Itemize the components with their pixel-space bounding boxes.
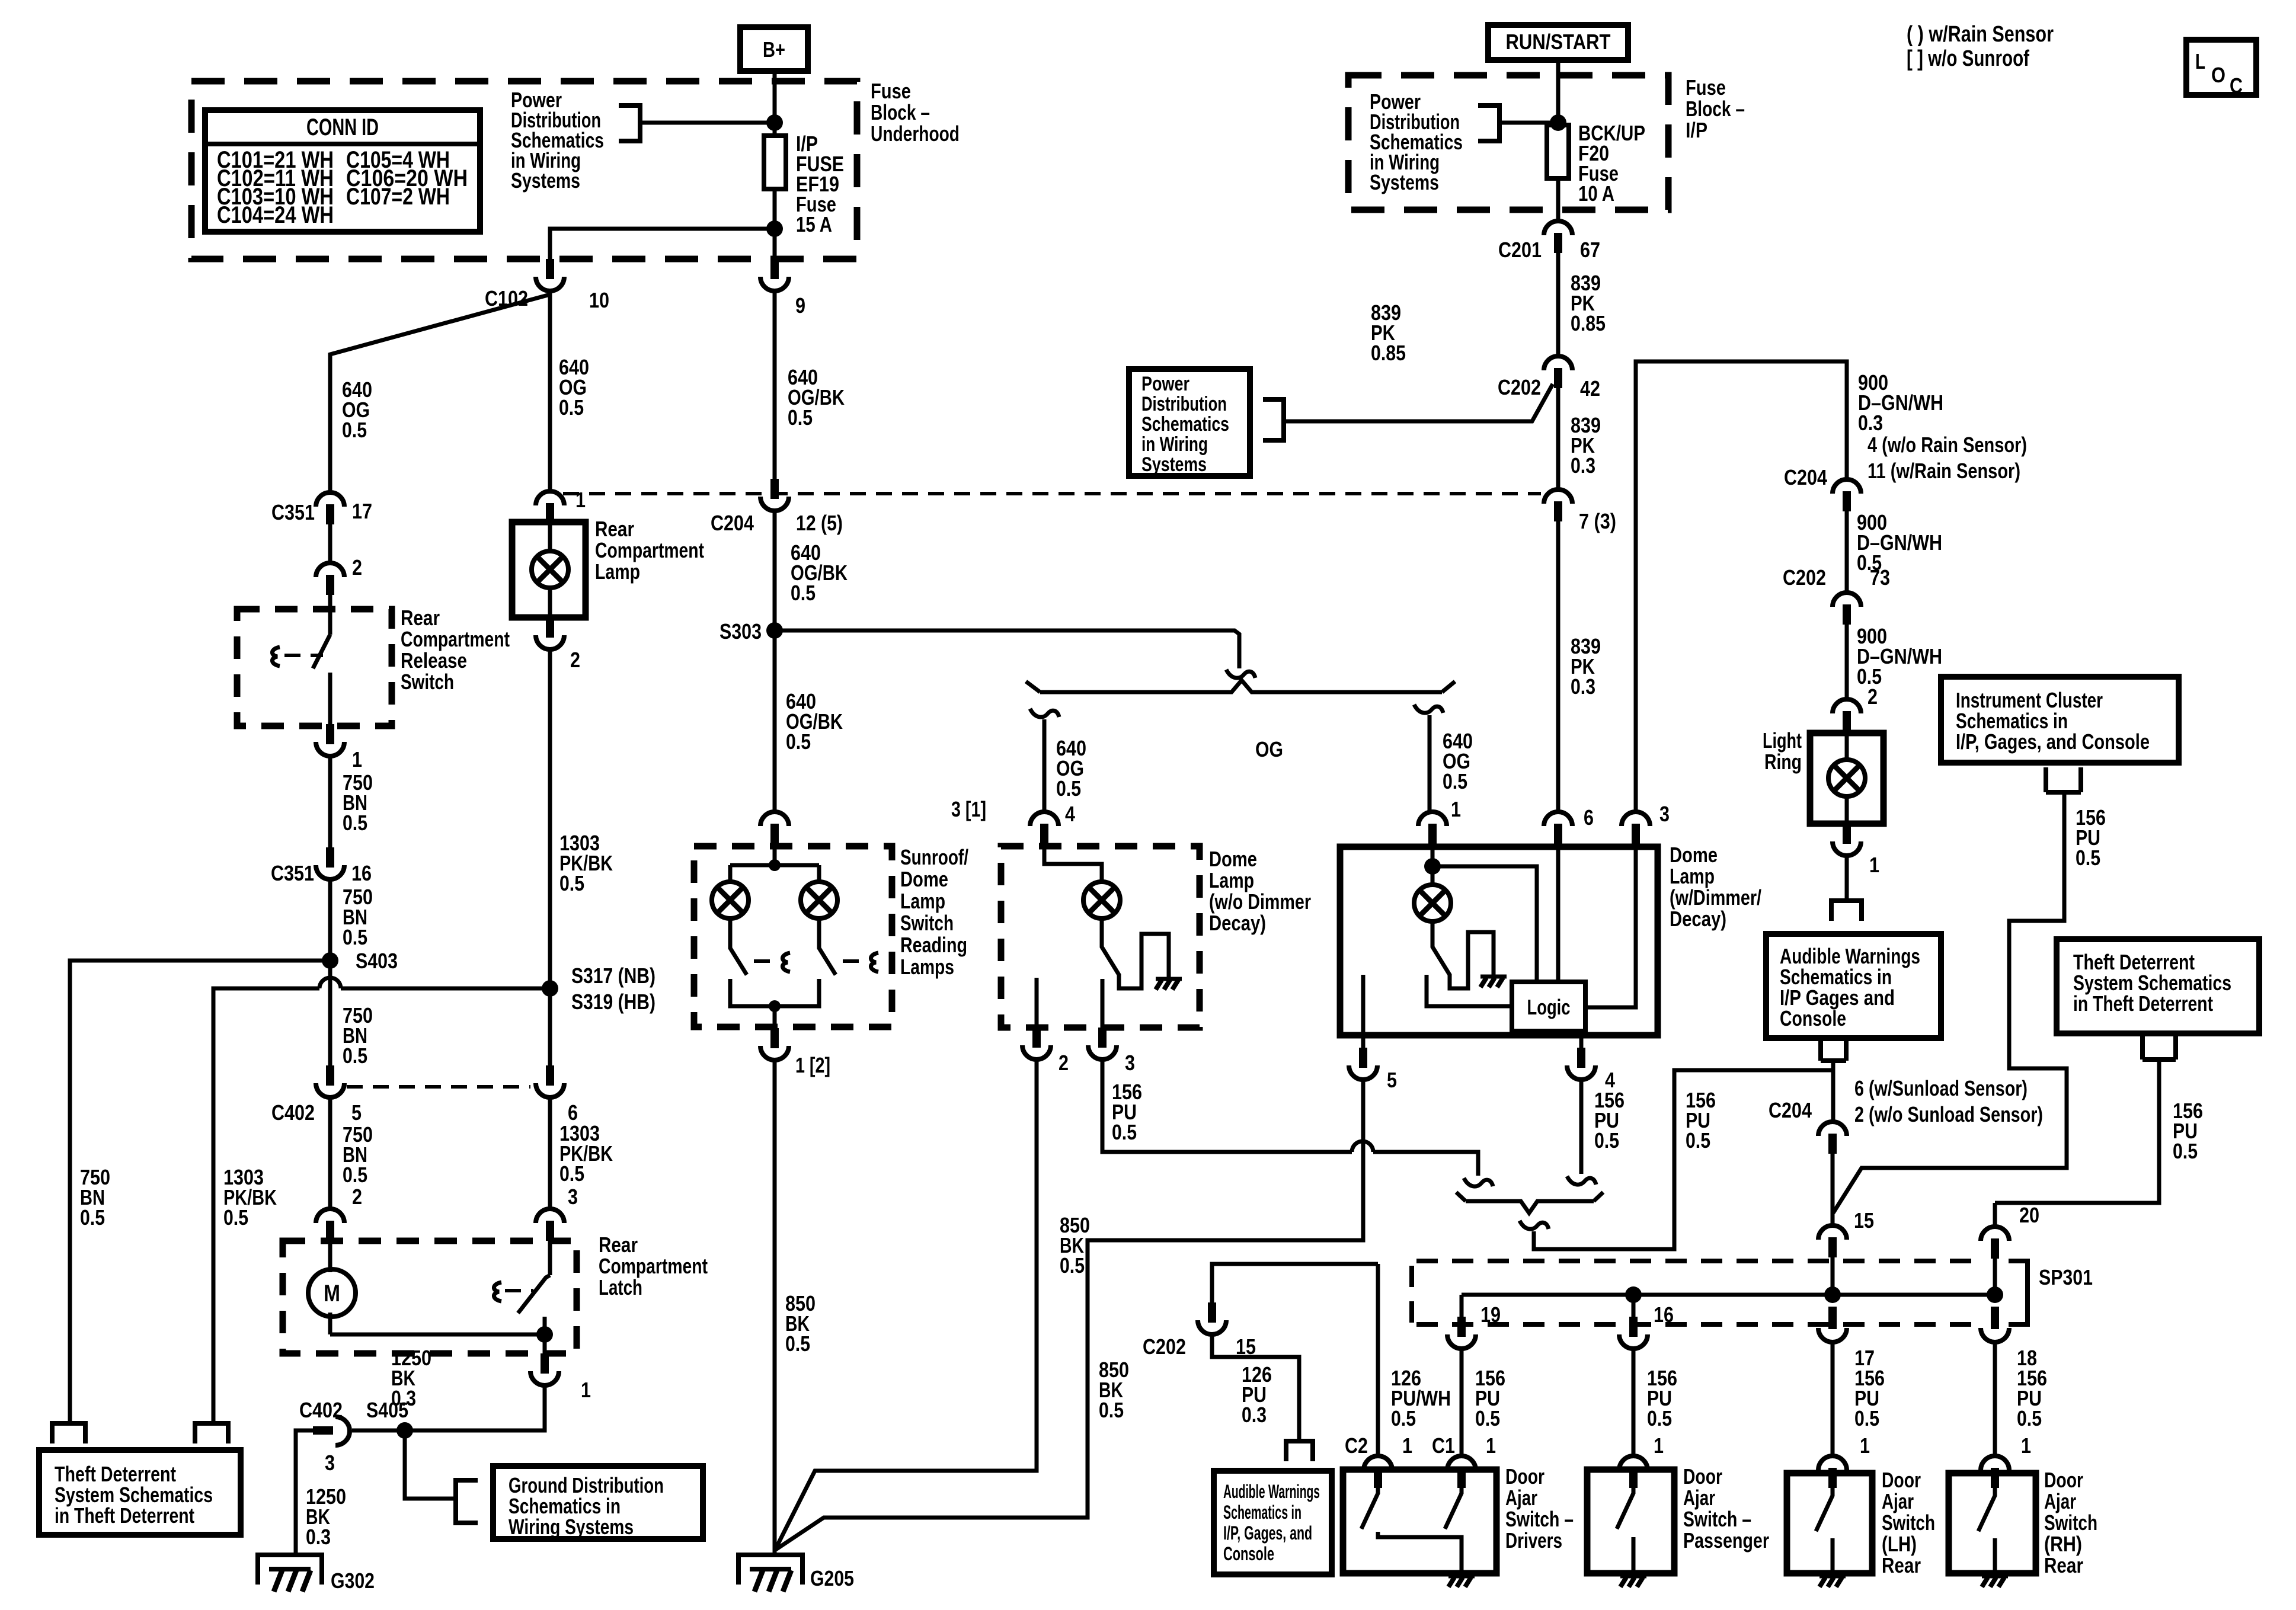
svg-text:Ajar: Ajar	[1505, 1486, 1537, 1510]
svg-text:2: 2	[352, 555, 362, 580]
svg-text:Lamp: Lamp	[1670, 864, 1715, 888]
svg-text:0.5: 0.5	[343, 811, 367, 835]
svg-text:C204: C204	[711, 511, 754, 535]
svg-text:Underhood: Underhood	[871, 121, 960, 146]
svg-text:Switch: Switch	[1882, 1510, 1935, 1535]
svg-text:C204: C204	[1784, 465, 1827, 489]
svg-text:C351: C351	[271, 500, 315, 524]
svg-text:Lamp: Lamp	[595, 559, 640, 584]
svg-text:1: 1	[581, 1378, 591, 1402]
svg-text:0.3: 0.3	[1242, 1403, 1267, 1427]
svg-text:0.5: 0.5	[343, 925, 367, 949]
svg-text:0.5: 0.5	[559, 1161, 584, 1186]
svg-text:( ) w/Rain Sensor: ( ) w/Rain Sensor	[1907, 22, 2054, 47]
svg-text:0.5: 0.5	[1475, 1406, 1500, 1430]
svg-text:0.5: 0.5	[223, 1205, 248, 1230]
svg-text:4 (w/o Rain Sensor): 4 (w/o Rain Sensor)	[1868, 433, 2027, 457]
svg-text:0.5: 0.5	[785, 1331, 810, 1356]
svg-text:0.5: 0.5	[786, 729, 811, 754]
svg-text:Compartment: Compartment	[401, 627, 510, 651]
svg-text:Release: Release	[401, 648, 467, 673]
svg-text:1: 1	[1860, 1433, 1870, 1458]
svg-text:M: M	[324, 1281, 340, 1307]
svg-text:0.5: 0.5	[559, 871, 584, 895]
svg-text:C204: C204	[1769, 1098, 1812, 1122]
svg-text:0.5: 0.5	[80, 1205, 105, 1230]
svg-text:16: 16	[1654, 1302, 1674, 1327]
svg-text:0.5: 0.5	[1056, 776, 1081, 801]
svg-text:Decay): Decay)	[1209, 911, 1266, 935]
svg-text:OG: OG	[1255, 737, 1283, 761]
svg-text:Rear: Rear	[599, 1233, 638, 1257]
svg-text:3 [1]: 3 [1]	[951, 797, 986, 821]
svg-text:C402: C402	[271, 1100, 315, 1125]
svg-text:Audible Warnings: Audible Warnings	[1223, 1481, 1320, 1502]
svg-text:Switch: Switch	[401, 670, 454, 694]
svg-text:1: 1	[1869, 853, 1879, 877]
svg-text:Ajar: Ajar	[1683, 1486, 1715, 1510]
svg-text:0.5: 0.5	[1443, 769, 1467, 793]
svg-text:G302: G302	[331, 1569, 375, 1593]
svg-text:(LH): (LH)	[1882, 1532, 1917, 1556]
svg-text:Light: Light	[1763, 728, 1802, 753]
svg-text:C107=2 WH: C107=2 WH	[346, 184, 450, 210]
svg-text:6: 6	[1584, 805, 1594, 830]
svg-text:Dome: Dome	[900, 867, 948, 891]
svg-text:12 (5): 12 (5)	[796, 511, 843, 535]
svg-text:2: 2	[352, 1185, 362, 1209]
svg-text:C351: C351	[271, 861, 314, 885]
svg-text:1: 1	[352, 747, 362, 772]
svg-text:C: C	[2230, 73, 2243, 98]
svg-text:CONN ID: CONN ID	[306, 114, 379, 140]
svg-text:9: 9	[795, 293, 805, 318]
svg-text:0.5: 0.5	[343, 1044, 367, 1068]
svg-text:Door: Door	[1882, 1468, 1921, 1492]
svg-text:3: 3	[568, 1185, 578, 1209]
svg-text:Switch –: Switch –	[1505, 1507, 1574, 1531]
svg-text:67: 67	[1580, 238, 1600, 262]
svg-text:Door: Door	[2044, 1468, 2083, 1492]
svg-text:19: 19	[1480, 1302, 1501, 1327]
svg-text:in Wiring: in Wiring	[1141, 433, 1208, 456]
svg-text:Logic: Logic	[1527, 995, 1571, 1019]
svg-text:Reading: Reading	[900, 933, 967, 957]
svg-text:G205: G205	[810, 1566, 854, 1590]
svg-text:Ajar: Ajar	[1882, 1489, 1914, 1513]
svg-text:Rear: Rear	[595, 517, 634, 541]
svg-text:C104=24 WH: C104=24 WH	[217, 202, 334, 228]
svg-text:0.5: 0.5	[1854, 1406, 1879, 1430]
svg-text:Systems: Systems	[1141, 453, 1207, 476]
svg-text:Sunroof/: Sunroof/	[900, 845, 968, 869]
svg-text:0.85: 0.85	[1571, 311, 1606, 335]
svg-text:11 (w/Rain Sensor): 11 (w/Rain Sensor)	[1868, 459, 2020, 483]
svg-text:Schematics in: Schematics in	[1223, 1502, 1302, 1523]
svg-text:O: O	[2211, 63, 2225, 87]
svg-text:Switch: Switch	[2044, 1510, 2097, 1535]
svg-text:in Theft Deterrent: in Theft Deterrent	[2073, 991, 2213, 1016]
svg-text:10 A: 10 A	[1578, 181, 1614, 206]
svg-text:Systems: Systems	[1370, 170, 1439, 194]
svg-text:Wiring Systems: Wiring Systems	[509, 1515, 634, 1539]
svg-text:0.5: 0.5	[2173, 1139, 2198, 1163]
svg-text:Latch: Latch	[599, 1275, 642, 1299]
svg-text:Lamp: Lamp	[1209, 868, 1254, 892]
svg-text:17: 17	[352, 499, 372, 523]
svg-text:C202: C202	[1143, 1334, 1186, 1359]
svg-text:6 (w/Sunload Sensor): 6 (w/Sunload Sensor)	[1854, 1076, 2028, 1100]
svg-text:0.5: 0.5	[2017, 1406, 2042, 1430]
svg-text:0.5: 0.5	[788, 405, 813, 430]
svg-text:10: 10	[589, 288, 609, 312]
svg-text:Power: Power	[1141, 373, 1189, 395]
svg-text:1: 1	[1654, 1433, 1664, 1458]
svg-text:Ajar: Ajar	[2044, 1489, 2076, 1513]
svg-text:Door: Door	[1505, 1464, 1544, 1489]
svg-text:Door: Door	[1683, 1464, 1722, 1489]
svg-text:C1: C1	[1432, 1433, 1455, 1458]
svg-text:Lamps: Lamps	[900, 955, 954, 979]
svg-text:73: 73	[1870, 565, 1890, 590]
svg-text:Rear: Rear	[401, 606, 440, 630]
svg-text:[ ] w/o Sunroof: [ ] w/o Sunroof	[1907, 46, 2029, 71]
svg-text:0.5: 0.5	[342, 418, 367, 442]
svg-text:1: 1	[1402, 1433, 1412, 1458]
svg-text:5: 5	[1387, 1068, 1397, 1092]
svg-text:0.5: 0.5	[559, 395, 584, 420]
svg-text:0.5: 0.5	[1060, 1253, 1085, 1278]
svg-text:B+: B+	[763, 37, 785, 62]
svg-text:Block –: Block –	[871, 100, 930, 124]
svg-text:5: 5	[351, 1100, 362, 1125]
svg-text:Distribution: Distribution	[1141, 393, 1227, 415]
svg-text:0.5: 0.5	[2076, 846, 2100, 870]
svg-text:0.5: 0.5	[1594, 1128, 1619, 1153]
svg-text:2: 2	[1868, 684, 1878, 709]
svg-text:0.3: 0.3	[306, 1525, 331, 1549]
svg-text:0.5: 0.5	[1686, 1128, 1710, 1153]
svg-text:I/P, Gages, and Console: I/P, Gages, and Console	[1956, 729, 2150, 754]
svg-text:S317 (NB): S317 (NB)	[571, 964, 655, 988]
svg-text:3: 3	[1125, 1051, 1135, 1075]
svg-text:42: 42	[1580, 376, 1600, 401]
svg-text:Drivers: Drivers	[1505, 1528, 1562, 1553]
svg-text:Systems: Systems	[511, 168, 580, 193]
svg-text:3: 3	[1659, 802, 1670, 826]
svg-text:2: 2	[570, 648, 580, 672]
svg-text:Compartment: Compartment	[595, 538, 704, 562]
svg-text:S319 (HB): S319 (HB)	[571, 990, 655, 1014]
svg-text:0.5: 0.5	[343, 1163, 367, 1187]
svg-text:Schematics: Schematics	[1141, 413, 1229, 436]
svg-text:Console: Console	[1780, 1006, 1846, 1030]
svg-text:2 (w/o Sunload Sensor): 2 (w/o Sunload Sensor)	[1854, 1102, 2043, 1126]
svg-text:(w/o Dimmer: (w/o Dimmer	[1209, 889, 1311, 914]
svg-text:Switch –: Switch –	[1683, 1507, 1751, 1531]
svg-text:Block –: Block –	[1686, 97, 1745, 121]
svg-text:0.5: 0.5	[791, 581, 816, 605]
svg-text:Ring: Ring	[1764, 750, 1802, 774]
svg-text:0.3: 0.3	[1571, 453, 1595, 478]
svg-text:0.5: 0.5	[1647, 1406, 1672, 1430]
svg-text:Fuse: Fuse	[1686, 75, 1726, 100]
svg-text:Rear: Rear	[1882, 1553, 1921, 1577]
svg-text:C202: C202	[1498, 375, 1541, 399]
svg-text:C2: C2	[1345, 1433, 1368, 1458]
svg-text:I/P: I/P	[1686, 118, 1707, 142]
svg-text:1: 1	[1486, 1433, 1496, 1458]
svg-text:20: 20	[2019, 1203, 2039, 1227]
svg-text:0.3: 0.3	[1858, 411, 1883, 435]
svg-text:Switch: Switch	[900, 911, 954, 935]
svg-text:0.5: 0.5	[1099, 1398, 1124, 1422]
svg-text:Lamp: Lamp	[900, 889, 945, 913]
svg-text:Decay): Decay)	[1670, 907, 1726, 931]
svg-text:Dome: Dome	[1670, 843, 1718, 867]
svg-text:Rear: Rear	[2044, 1553, 2083, 1577]
svg-text:Fuse: Fuse	[871, 79, 911, 103]
svg-text:S405: S405	[366, 1398, 408, 1422]
svg-text:S403: S403	[356, 949, 398, 973]
svg-text:Passenger: Passenger	[1683, 1528, 1769, 1553]
svg-text:0.85: 0.85	[1371, 341, 1406, 365]
svg-text:C202: C202	[1783, 565, 1826, 590]
svg-text:I/P, Gages, and: I/P, Gages, and	[1223, 1522, 1312, 1544]
svg-text:3: 3	[325, 1451, 335, 1475]
svg-text:C201: C201	[1498, 238, 1542, 262]
svg-text:S303: S303	[720, 619, 762, 644]
svg-text:in Theft Deterrent: in Theft Deterrent	[55, 1503, 194, 1528]
svg-text:SP301: SP301	[2039, 1265, 2093, 1289]
svg-text:15: 15	[1854, 1208, 1874, 1233]
svg-text:Compartment: Compartment	[599, 1254, 708, 1278]
svg-text:L: L	[2195, 49, 2205, 73]
svg-text:0.5: 0.5	[1112, 1120, 1137, 1144]
svg-text:1: 1	[2021, 1433, 2031, 1458]
svg-text:1 [2]: 1 [2]	[795, 1053, 830, 1077]
svg-text:Console: Console	[1223, 1543, 1274, 1564]
svg-text:4: 4	[1065, 802, 1075, 826]
svg-text:2: 2	[1059, 1051, 1069, 1075]
svg-text:0.5: 0.5	[1391, 1406, 1416, 1430]
svg-text:Dome: Dome	[1209, 847, 1257, 871]
svg-text:1: 1	[1451, 797, 1461, 821]
svg-text:7 (3): 7 (3)	[1579, 509, 1616, 533]
svg-text:(w/Dimmer/: (w/Dimmer/	[1670, 885, 1761, 910]
svg-text:RUN/START: RUN/START	[1506, 30, 1611, 54]
svg-text:1: 1	[575, 488, 586, 512]
svg-text:(RH): (RH)	[2044, 1532, 2082, 1556]
svg-text:16: 16	[351, 861, 372, 885]
svg-text:0.3: 0.3	[1571, 674, 1595, 699]
svg-text:15 A: 15 A	[796, 212, 832, 236]
